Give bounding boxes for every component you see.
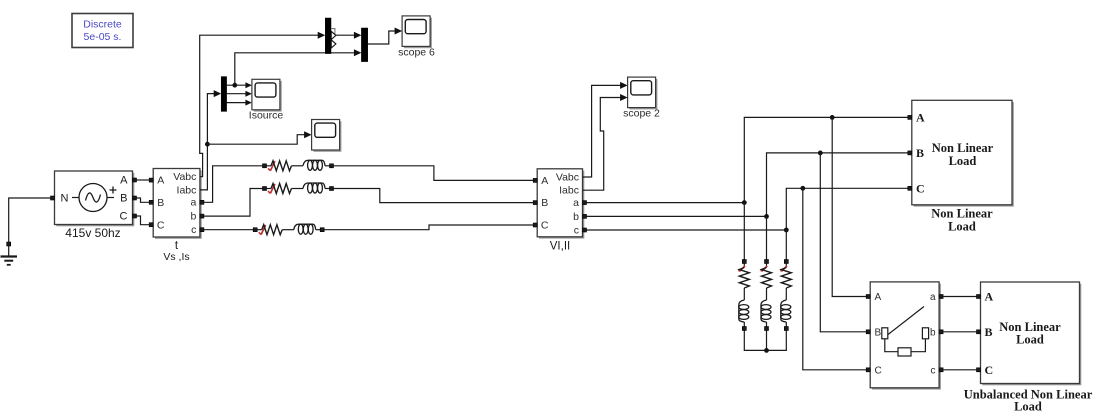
svg-text:N: N	[61, 193, 69, 205]
svg-text:Load: Load	[949, 154, 977, 168]
svg-text:C: C	[875, 365, 882, 376]
port A	[133, 178, 137, 182]
svg-text:B: B	[875, 327, 882, 338]
wire Iabc to Isource demux	[200, 94, 216, 190]
wire b to NLL B	[587, 153, 908, 217]
sine source circle	[79, 184, 107, 212]
port A	[977, 295, 981, 299]
svg-text:b: b	[191, 211, 197, 223]
svg-text:Vs ,Is: Vs ,Is	[163, 251, 189, 263]
shunt wire c down	[785, 230, 787, 260]
wire branch to floating scope	[207, 135, 305, 145]
svg-text:b: b	[930, 327, 936, 338]
measurement block Vs,Is	[149, 169, 204, 264]
demux (Isource)	[221, 77, 226, 112]
scope block scope 2	[629, 79, 657, 110]
shunt wire b down	[766, 216, 768, 259]
series RL branch phase c	[253, 228, 257, 232]
svg-text:a: a	[930, 292, 936, 303]
svg-text:c: c	[191, 224, 196, 236]
svg-text:B: B	[985, 325, 993, 339]
port C (input)	[533, 223, 537, 227]
svg-text:A: A	[157, 175, 164, 187]
svg-text:scope 6: scope 6	[398, 46, 435, 58]
svg-text:Load: Load	[1016, 333, 1044, 347]
junction on Iabc riser	[205, 142, 210, 147]
junction a shunt	[742, 200, 747, 205]
svg-text:B: B	[157, 197, 164, 209]
svg-text:C: C	[916, 182, 925, 196]
ground symbol	[8, 246, 10, 256]
port c out	[939, 368, 943, 372]
port C	[908, 186, 912, 190]
breaker switch icon	[882, 328, 888, 339]
svg-text:c: c	[931, 365, 936, 376]
port B	[977, 330, 981, 334]
wire breaker tap C	[803, 188, 866, 369]
svg-text:C: C	[541, 220, 549, 232]
wire Vabc to scope 2	[583, 85, 622, 177]
wire b to load B	[943, 331, 976, 333]
port B	[908, 151, 912, 155]
wire RL1 to VI,II A	[334, 166, 534, 181]
svg-text:Iabc: Iabc	[177, 184, 197, 196]
port N	[51, 196, 55, 200]
svg-text:C: C	[120, 211, 128, 223]
Non Linear Load block (bottom, unbalanced)	[964, 282, 1093, 414]
svg-text:a: a	[191, 197, 197, 209]
junction on first demux output	[232, 83, 237, 88]
port C	[133, 214, 137, 218]
Discrete powergui block	[72, 14, 133, 48]
svg-text:B: B	[541, 197, 548, 209]
wire up to mux2	[235, 53, 354, 85]
junction c breaker tap	[800, 186, 805, 191]
wire Vabc to demux (top)	[200, 35, 320, 177]
wire RL3 to VI,II C	[324, 225, 533, 230]
port B in	[866, 330, 870, 334]
svg-text:C: C	[157, 219, 165, 231]
scope block Isource	[254, 81, 282, 112]
wire Iabc to scope 2	[583, 98, 622, 191]
ground port	[7, 242, 11, 246]
port B (input)	[149, 200, 153, 204]
port A (input)	[149, 178, 153, 182]
three-phase source block 415v 50hz	[51, 171, 137, 240]
demux (top)	[325, 18, 336, 54]
port B	[133, 196, 137, 200]
port A in	[866, 295, 870, 299]
svg-text:A: A	[541, 175, 548, 187]
port b out	[939, 330, 943, 334]
svg-text:Load: Load	[948, 220, 976, 234]
svg-text:C: C	[985, 363, 994, 377]
svg-text:scope 2: scope 2	[623, 107, 660, 119]
junction c shunt	[784, 228, 789, 233]
svg-text:c: c	[574, 224, 579, 236]
wire a to load A	[943, 296, 976, 298]
junction b shunt	[764, 214, 769, 219]
wire breaker tap B	[820, 153, 866, 332]
svg-text:Discrete: Discrete	[83, 18, 122, 30]
wire A source to VsIs	[137, 179, 150, 181]
wire c to RL branch 3	[204, 229, 253, 231]
svg-text:Vabc: Vabc	[173, 171, 196, 183]
port C in	[866, 368, 870, 372]
mux (scope6 feed)	[361, 28, 367, 62]
shunt RL branch b	[765, 260, 769, 264]
shunt wire a down	[743, 203, 745, 260]
svg-text:b: b	[573, 211, 579, 223]
shunt RL branch a	[742, 260, 746, 264]
svg-text:415v 50hz: 415v 50hz	[65, 226, 120, 240]
series RL branch phase b	[263, 187, 267, 191]
scope block	[313, 121, 341, 152]
port B (input)	[533, 201, 537, 205]
measurement block VI,II	[533, 169, 586, 253]
wire breaker tap A	[832, 117, 866, 296]
svg-text:A: A	[985, 290, 994, 304]
ground wire from N	[9, 198, 51, 242]
svg-text:Non Linear: Non Linear	[931, 207, 993, 221]
neutral link of shunt branches	[744, 331, 786, 351]
wire a to NLL A	[587, 117, 908, 202]
svg-text:5e-05 s.: 5e-05 s.	[84, 31, 122, 43]
junction neutral	[764, 348, 769, 353]
port C (input)	[149, 223, 153, 227]
wire a to RL branch 1	[204, 166, 263, 203]
wire c to load C	[943, 369, 976, 371]
port A	[908, 115, 912, 119]
wire c to NLL C	[587, 188, 908, 230]
svg-text:B: B	[120, 193, 127, 205]
port A (input)	[533, 178, 537, 182]
svg-text:Isource: Isource	[249, 109, 284, 121]
svg-text:Load: Load	[1014, 400, 1042, 414]
svg-text:A: A	[875, 292, 882, 303]
wire C source to VsIs	[137, 216, 150, 225]
plus sign	[110, 187, 117, 194]
wire b to RL branch 2	[204, 189, 263, 217]
wire mux2 to scope 6	[368, 31, 397, 44]
wire RL2 to VI,II B	[334, 189, 534, 203]
port C	[977, 368, 981, 372]
junction b breaker tap	[818, 151, 823, 156]
Non Linear Load block (top)	[908, 100, 1014, 233]
svg-text:Iabc: Iabc	[559, 185, 579, 197]
three-phase breaker block	[866, 282, 943, 390]
svg-text:a: a	[573, 197, 579, 209]
svg-text:A: A	[120, 175, 128, 187]
svg-text:B: B	[916, 146, 924, 160]
wire B source to VsIs	[137, 198, 150, 202]
svg-text:VI,II: VI,II	[550, 241, 570, 253]
port a out	[939, 295, 943, 299]
scope block scope 6	[404, 18, 432, 49]
junction a breaker tap	[830, 115, 835, 120]
series RL branch phase a	[263, 164, 267, 168]
svg-text:Vabc: Vabc	[556, 171, 579, 183]
svg-text:A: A	[916, 111, 925, 125]
shunt RL branch c	[784, 260, 788, 264]
svg-text:Non Linear: Non Linear	[932, 141, 994, 155]
demux outputs to Isource scope	[227, 84, 247, 86]
wire demux to mux2	[336, 34, 354, 36]
